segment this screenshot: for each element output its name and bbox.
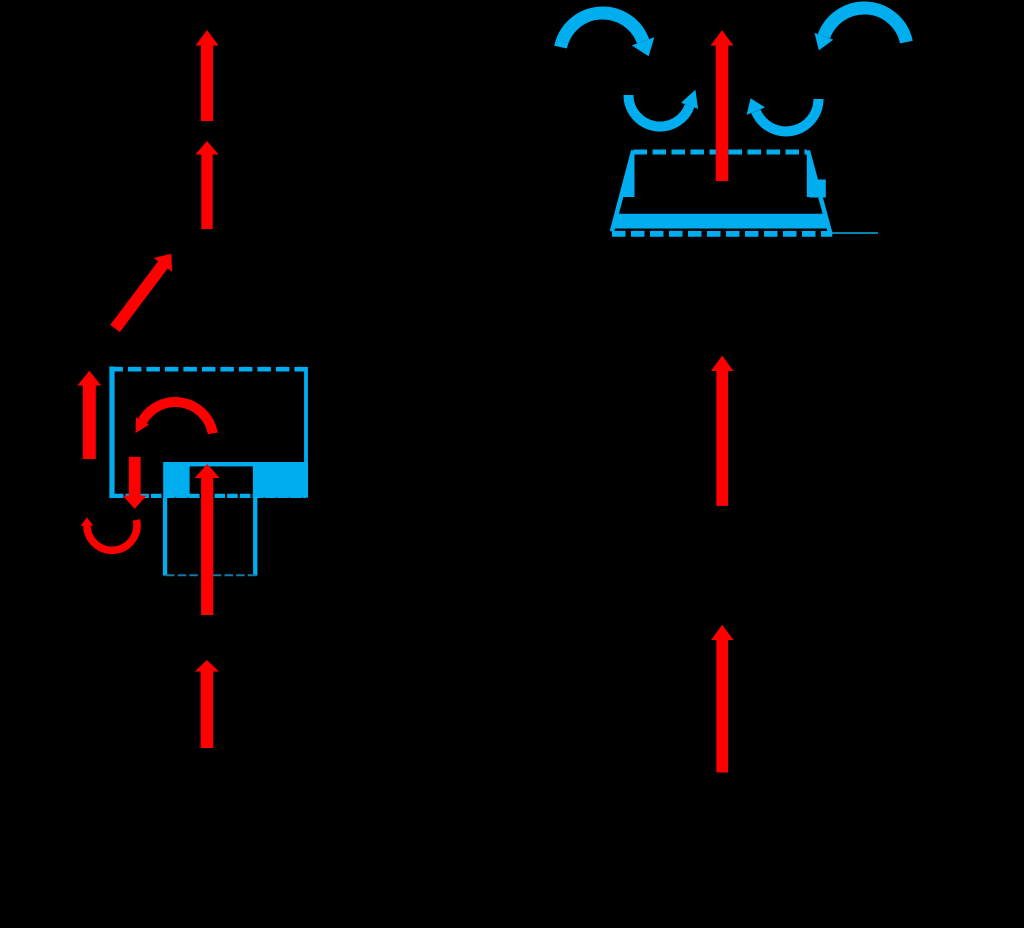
red plume arrow B3 [711,625,734,773]
laptop left corner wedge [622,150,635,197]
red arrow A4 (left riser) [77,371,101,459]
laptop bottom dashed edge [612,231,832,237]
red plume arrow B2 [711,356,734,506]
laptop right port bump [810,180,826,198]
blue convection small left arc [629,95,690,127]
red arrow A2 (top exhaust, lower) [195,141,218,229]
duct left wall [163,498,167,576]
laptop right slant edge [808,151,830,232]
device box bottom dashed edge [109,494,306,498]
device box right edge [304,367,308,462]
desk line [832,232,878,234]
blue base bar [163,462,308,498]
duct bottom dashed edge [166,574,257,576]
blue convection big left arc [561,13,644,47]
red arrow A1 (top exhaust, upper) [196,30,219,121]
device box top dashed edge [109,367,306,372]
blue convection small right arc [756,99,819,131]
red circulation arc inside box [143,402,213,433]
red arrow A3 (diagonal exhaust) [110,254,172,332]
blue convection big right arc [824,8,907,42]
red arrow A5 (bottom inflow) [195,660,219,748]
vent notch (black) [190,466,253,497]
red u-turn hook arrow [87,520,137,550]
device box left edge [109,367,114,499]
red down arrow (leak at hinge) [123,457,147,509]
laptop left slant edge [612,151,633,232]
laptop right corner wedge [807,150,820,197]
red main inflow arrow through vent [195,464,220,615]
duct right wall [253,498,257,576]
laptop front band [612,214,831,229]
red plume arrow B1 [711,30,734,181]
laptop top dashed edge [634,150,808,155]
